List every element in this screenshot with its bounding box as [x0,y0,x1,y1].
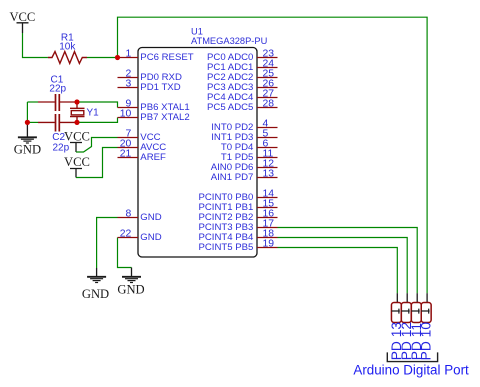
pin 7 (VCC) [118,128,161,143]
svg-text:22p: 22p [49,84,66,95]
connector J4 PD 10 [419,293,434,360]
connector J1 PD 13 [389,293,404,360]
wire pin8 to ground [97,218,118,269]
pin 15 (PCINT1 PB1) [198,198,277,213]
connector J3 PD 11 [409,293,424,360]
svg-text:VCC: VCC [9,10,35,24]
ground GND (pin 22) [117,268,144,297]
pin 1 (PC6 RESET) [118,48,194,63]
wire top rail to C1 [27,101,38,103]
pin 19 (PCINT5 PB5) [198,238,277,253]
pin 3 (PD1 TXD) [118,78,181,93]
bracket [387,352,437,361]
pin 12 (AIN0 PD6) [211,158,278,173]
power symbol VCC (top left) [9,10,35,33]
wire pin18 to PD12 connector [278,238,408,294]
wire VCC to pin20 [76,148,118,178]
pin 27 (PC4 ADC4) [207,88,277,103]
svg-text:PD1 TXD: PD1 TXD [140,82,180,93]
node junction left GND tap [25,120,30,125]
pin 13 (AIN1 PD7) [211,168,278,183]
svg-text:GND: GND [140,232,161,243]
wire bottom rail to C2 [27,121,38,123]
svg-text:GND: GND [82,287,109,301]
svg-text:GND: GND [140,212,161,223]
svg-text:8: 8 [126,208,132,219]
svg-text:19: 19 [263,238,275,249]
pin 20 (AVCC) [118,138,167,153]
pin 1 of PD 12 connector [401,309,409,314]
svg-text:GND: GND [14,142,41,156]
svg-text:AIN1 PD7: AIN1 PD7 [211,172,254,183]
pin 2 (PD0 RXD) [118,68,182,83]
pin 24 (PC1 ADC1) [207,58,277,73]
svg-text:10: 10 [120,108,132,119]
svg-text:Arduino Digital Port: Arduino Digital Port [353,363,469,378]
svg-text:AREF: AREF [140,152,166,163]
svg-text:PB7 XTAL2: PB7 XTAL2 [140,112,189,123]
node junction at pin1 [115,55,120,60]
wire pin22 to ground [118,238,132,268]
pin 8 (GND) [118,208,162,223]
svg-text:Y1: Y1 [87,108,100,119]
power symbol VCC (pin 20) [64,155,90,178]
pin 6 (T0 PD4) [221,138,278,153]
wire crystal top to pin9 [77,102,118,108]
pin 11 (T1 PD5) [221,148,278,163]
svg-text:GND: GND [117,282,144,296]
connector J2 PD 12 [399,293,414,360]
pin 14 (PCINT0 PB0) [198,188,277,203]
svg-text:1: 1 [126,48,132,59]
svg-text:10k: 10k [59,42,76,53]
pin 16 (PCINT2 PB2) [198,208,277,223]
pin 1 of PD 13 connector [392,309,400,314]
wire VCC to R1 [23,33,48,58]
IC U1 ATMEGA328P-PU body [138,27,267,258]
svg-text:U1: U1 [191,27,203,37]
svg-text:13: 13 [263,168,275,179]
crystal Y1 [70,102,99,122]
resistor R1 [48,32,87,63]
pin 18 (PCINT4 PB4) [198,228,277,243]
svg-text:PCINT5 PB5: PCINT5 PB5 [198,242,253,253]
pin 1 of PD 10 connector [421,309,429,314]
pin 28 (PC5 ADC5) [207,98,277,113]
svg-text:ATMEGA328P-PU: ATMEGA328P-PU [191,36,267,46]
wire left vertical crystal rail [26,102,28,122]
pin 26 (PC3 ADC3) [207,78,277,93]
wire pin1 junction to PD10 connector (top route) [118,17,428,293]
pin 4 (INT0 PD2) [211,118,277,132]
svg-text:28: 28 [263,98,275,109]
svg-text:VCC: VCC [64,155,90,169]
pin 21 (AREF) [118,148,167,163]
pin 9 (PB6 XTAL1) [118,98,190,113]
svg-text:22: 22 [120,228,132,239]
pin 5 (INT1 PD3) [211,128,277,143]
power symbol VCC (pin 7) [64,130,90,152]
svg-text:PD 10: PD 10 [419,322,434,361]
svg-text:PC6 RESET: PC6 RESET [140,52,193,63]
svg-text:22p: 22p [53,143,70,154]
capacitor C2 [38,114,77,154]
wire pin17 to PD11 connector [278,228,418,294]
svg-text:21: 21 [120,148,132,159]
node junction crystal top [74,99,79,104]
node junction crystal bottom [74,120,79,125]
ground GND (pin 8) [82,268,109,301]
pin 23 (PC0 ADC0) [207,48,277,63]
pin 17 (PCINT3 PB3) [198,218,277,233]
wire R1 to pin1 [87,57,118,59]
svg-text:3: 3 [126,78,132,89]
pin 22 (GND) [118,228,162,243]
pin 25 (PC2 ADC2) [207,68,277,83]
pin 10 (PB7 XTAL2) [118,108,190,123]
wire VCC to pin7 [76,138,118,153]
svg-text:VCC: VCC [64,130,90,144]
svg-text:PC5 ADC5: PC5 ADC5 [207,102,253,113]
capacitor C1 [38,75,77,112]
wire crystal bottom to pin10 [77,118,118,123]
pin 1 of PD 11 connector [411,309,419,314]
wire pin19 to PD13 connector [278,248,398,294]
ground GND (crystal) [14,122,41,156]
